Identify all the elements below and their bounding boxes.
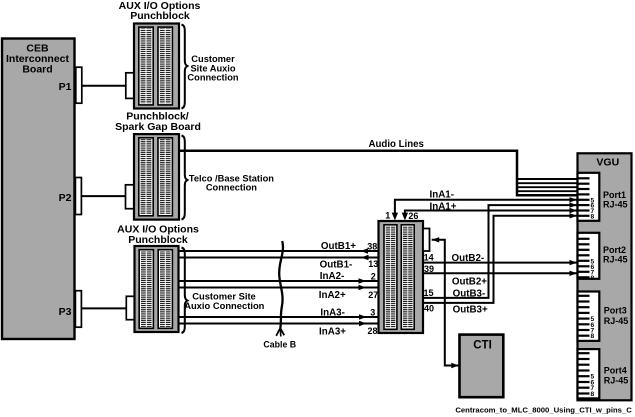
punchblock 1 left terminal strip: [139, 27, 153, 105]
stub connector on punchblock 3: [126, 296, 135, 319]
cable B squiggle: [276, 241, 284, 337]
svg-text:Punchblock: Punchblock: [128, 234, 188, 246]
wire OutB1- (pin 13): [179, 255, 380, 260]
svg-text:38: 38: [367, 241, 377, 251]
Port4 pin numbers 5 6 7 8: [590, 374, 594, 398]
CEB Interconnect Board box: [2, 39, 75, 340]
punchblock 1 right terminal strip: [158, 27, 172, 105]
Port1 pin numbers 5 6 7 8: [590, 197, 594, 220]
svg-text:OutB1-: OutB1-: [320, 259, 353, 270]
punchblock 2 left terminal strip: [139, 138, 153, 216]
P1 connector body: [76, 67, 82, 103]
wire P1 to punchblock 1 stub: [81, 85, 126, 87]
svg-text:InA3+: InA3+: [319, 326, 346, 337]
Port3 connector body: [578, 292, 600, 341]
wire InA1+ to Port1 pin7: [402, 208, 578, 221]
brace customer site auxio (top): [182, 25, 188, 109]
svg-text:RJ-45: RJ-45: [603, 254, 628, 264]
Port4 RJ-45 connector: [578, 349, 629, 398]
svg-text:P1: P1: [59, 81, 72, 93]
svg-text:Auxio Connection: Auxio Connection: [184, 300, 264, 311]
svg-text:8: 8: [590, 275, 594, 282]
punchblock 3 right terminal strip: [158, 250, 172, 329]
svg-text:InA2-: InA2-: [320, 271, 345, 282]
svg-text:39: 39: [424, 264, 434, 274]
wire P3 to punchblock 3 stub: [81, 307, 127, 309]
arrow OutB3+ at Port1 pin8: [570, 213, 578, 218]
central punchblock (MLC 8000): [379, 221, 424, 333]
CTI box: [460, 335, 504, 398]
audio lines wire: [179, 151, 578, 195]
wire OutB1+ (pin 38): [179, 248, 380, 253]
Port1 pins 1-8: [578, 178, 589, 216]
svg-text:13: 13: [368, 259, 378, 269]
label Punchblock / Spark Gap Board: [115, 110, 201, 133]
wire InA2- (pin 2): [179, 278, 380, 283]
svg-text:Port1: Port1: [603, 190, 626, 200]
svg-text:Port3: Port3: [604, 306, 627, 316]
svg-text:OutB3+: OutB3+: [453, 305, 488, 316]
svg-text:RJ-45: RJ-45: [603, 199, 628, 209]
svg-text:15: 15: [424, 288, 434, 298]
audio branch wires to Port1 pins 1-4: [517, 179, 578, 191]
svg-text:Audio Lines: Audio Lines: [369, 139, 424, 150]
wire P2 to punchblock 2 stub: [81, 195, 126, 197]
punchblock 2 (Punchblock / Spark Gap Board): [134, 134, 179, 220]
punchblock 3 body: [135, 246, 179, 332]
wire from bracket down to CTI: [432, 237, 460, 368]
wire InA1- to Port1 pin5: [392, 197, 578, 220]
svg-text:14: 14: [424, 252, 434, 262]
punchblock 3 (AUX I/O Options Punchblock bottom): [135, 246, 179, 332]
brace telco: [182, 136, 188, 220]
bracket connector on central block: [423, 229, 430, 252]
svg-text:InA1+: InA1+: [430, 202, 457, 213]
Port3 RJ-45 connector: [578, 292, 629, 341]
Port3 pin numbers 5 6 7 8: [590, 316, 594, 340]
wire OutB3- (pin 15) to Port1 pin6: [423, 205, 578, 298]
punchblock 3 left terminal strip: [139, 250, 153, 329]
arrow OutB3- at Port1 pin6: [570, 202, 578, 207]
svg-text:RJ-45: RJ-45: [604, 376, 629, 386]
svg-text:InA3-: InA3-: [320, 308, 345, 319]
svg-text:OutB1+: OutB1+: [321, 241, 356, 252]
svg-text:8: 8: [590, 333, 594, 340]
svg-text:P2: P2: [59, 192, 72, 204]
punchblock 1 body: [134, 24, 179, 109]
label Customer Site Auxio Connection (bottom): [184, 290, 264, 311]
Port2 connector body: [578, 233, 600, 279]
Port4 connector body: [578, 349, 600, 398]
svg-text:28: 28: [367, 326, 377, 336]
svg-text:Spark Gap Board: Spark Gap Board: [115, 121, 201, 133]
svg-text:OutB2+: OutB2+: [452, 277, 487, 288]
Port4 pins 1-8: [578, 353, 589, 393]
wire OutB2+ (pin 39) to Port2 pin7: [423, 271, 578, 276]
Port1 RJ-45 connector: [578, 173, 628, 221]
punchblock 2 right terminal strip: [158, 138, 172, 216]
connector P1: [59, 67, 82, 103]
svg-text:Board: Board: [22, 64, 52, 76]
central punchblock body: [379, 221, 424, 333]
label AUX I/O Options Punchblock (top): [119, 0, 201, 22]
svg-text:Port2: Port2: [603, 245, 626, 255]
central punchblock right terminal strip: [401, 225, 414, 329]
label AUX I/O Options Punchblock (bottom): [117, 223, 199, 246]
punchblock 2 body: [134, 134, 179, 220]
stub connector on punchblock 1: [126, 73, 135, 99]
svg-text:Cable B: Cable B: [263, 339, 296, 349]
svg-text:Port4: Port4: [604, 365, 627, 375]
svg-text:CTI: CTI: [473, 340, 492, 352]
wire InA3- (pin 3): [179, 314, 380, 319]
svg-text:InA1-: InA1-: [430, 189, 455, 200]
CTI body: [460, 335, 504, 398]
connector P2: [59, 178, 82, 215]
Port1 connector body: [578, 173, 600, 221]
stub connector on punchblock 2: [126, 185, 135, 209]
svg-text:26: 26: [408, 211, 418, 221]
Port2 pins 1-8: [578, 239, 589, 277]
svg-text:8: 8: [590, 391, 594, 398]
svg-text:Punchblock: Punchblock: [130, 10, 190, 22]
Port2 RJ-45 connector: [578, 233, 628, 282]
wire OutB3+ (pin 40) to Port1 pin8: [423, 216, 578, 303]
svg-text:InA2+: InA2+: [319, 290, 346, 301]
central punchblock left terminal strip: [384, 225, 397, 329]
VGU box: [578, 153, 632, 400]
punchblock 1 (AUX I/O Options Punchblock): [134, 24, 179, 109]
svg-text:RJ-45: RJ-45: [604, 316, 629, 326]
connector P3: [59, 291, 82, 328]
svg-text:40: 40: [424, 303, 434, 313]
svg-text:3: 3: [370, 308, 375, 318]
label Telco /Base Station Connection: [189, 173, 274, 192]
svg-text:1: 1: [385, 211, 390, 221]
CEB board body: [2, 39, 75, 340]
svg-text:Connection: Connection: [206, 182, 257, 192]
svg-text:8: 8: [590, 213, 594, 220]
brace customer site auxio (bottom): [182, 248, 188, 334]
label Customer Site Auxio Connection (top): [187, 54, 238, 83]
svg-text:Connection: Connection: [187, 72, 238, 82]
Port2 pin numbers 5 6 7 8: [590, 258, 594, 282]
Port3 pins 1-8: [578, 296, 589, 336]
wire InA3+ (pin 28): [179, 321, 380, 326]
svg-text:P3: P3: [59, 306, 72, 318]
svg-text:OutB2-: OutB2-: [452, 253, 485, 264]
wire OutB2- (pin 14) to Port2 pin5: [423, 260, 578, 265]
wire InA2+ (pin 27): [179, 285, 380, 290]
svg-text:27: 27: [368, 290, 378, 300]
svg-text:VGU: VGU: [596, 156, 619, 168]
VGU body: [578, 153, 632, 400]
svg-text:Centracom_to_MLC_8000_Using_CT: Centracom_to_MLC_8000_Using_CTI_w_pins_C: [455, 406, 632, 415]
P2 connector body: [75, 178, 81, 215]
P3 connector body: [75, 291, 81, 328]
svg-text:Customer: Customer: [191, 54, 235, 64]
svg-text:2: 2: [371, 272, 376, 282]
svg-text:OutB3-: OutB3-: [453, 288, 486, 299]
